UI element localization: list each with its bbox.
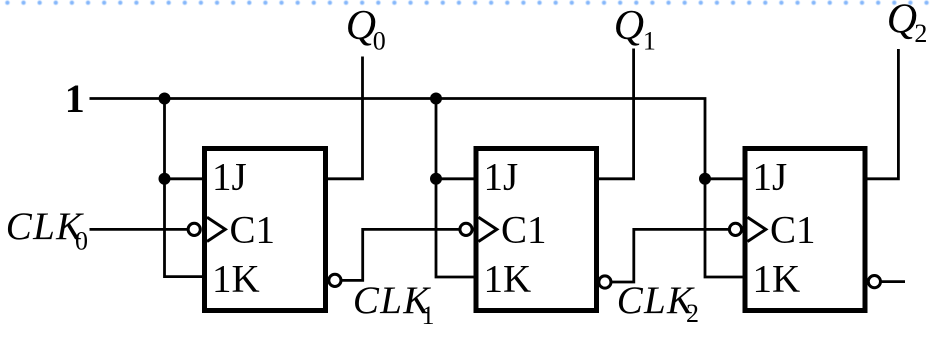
junction on bus at FF2 tap bbox=[430, 93, 442, 105]
wire: Q2 output from FF3 right edge, riser up to Q2 label bbox=[864, 49, 899, 179]
svg-text:1J: 1J bbox=[212, 155, 247, 198]
svg-text:CLK: CLK bbox=[353, 279, 431, 322]
svg-text:Q: Q bbox=[614, 3, 644, 49]
wire: Q0 output from FF1 right edge, riser up to Q0 label bbox=[324, 57, 363, 179]
svg-text:C1: C1 bbox=[230, 209, 276, 252]
U1 clock inversion bubble bbox=[188, 223, 200, 235]
U3 clock inversion bubble bbox=[729, 223, 741, 235]
svg-text:C1: C1 bbox=[501, 209, 547, 252]
svg-text:Q: Q bbox=[346, 3, 376, 49]
junction at FF3 J input bbox=[699, 173, 711, 185]
wire: logic-1 bus from "1" label across top, corner down at right into FF3 J/K tap bbox=[90, 99, 745, 278]
svg-text:2: 2 bbox=[686, 299, 699, 328]
svg-text:1: 1 bbox=[65, 76, 85, 121]
wire: FF2 J input bbox=[436, 177, 475, 180]
svg-text:1K: 1K bbox=[484, 257, 532, 300]
U2 clock edge triangle bbox=[479, 217, 497, 241]
U2 inverted-output bubble bbox=[599, 276, 611, 288]
svg-text:CLK: CLK bbox=[6, 205, 84, 248]
wire: FF2 inverted output to FF3 clock (CLK2 net) bbox=[612, 229, 729, 282]
flip-flop U3 box bbox=[745, 149, 865, 311]
flip-flop U1 box bbox=[205, 149, 326, 311]
svg-text:Q: Q bbox=[887, 0, 917, 43]
svg-text:0: 0 bbox=[373, 27, 386, 56]
wire: CLK0 input to FF1 clock bubble bbox=[90, 228, 188, 231]
svg-text:2: 2 bbox=[914, 19, 927, 48]
svg-text:1: 1 bbox=[643, 27, 656, 56]
junction at FF1 J input bbox=[159, 173, 171, 185]
svg-text:1J: 1J bbox=[484, 155, 519, 198]
svg-text:1J: 1J bbox=[753, 155, 788, 198]
wire: Q1 output from FF2 right edge, riser up to Q1 label bbox=[595, 49, 634, 179]
svg-text:0: 0 bbox=[75, 227, 88, 256]
svg-text:1K: 1K bbox=[212, 257, 260, 300]
U2 clock inversion bubble bbox=[460, 223, 472, 235]
wire: FF1 J input bbox=[165, 177, 205, 180]
U1 inverted-output bubble bbox=[329, 274, 341, 286]
wire: FF3 J input from bus tap bbox=[705, 177, 744, 180]
flip-flop U2 box bbox=[476, 149, 597, 311]
U3 inverted-output bubble bbox=[868, 276, 880, 288]
svg-text:CLK: CLK bbox=[617, 279, 695, 322]
svg-text:C1: C1 bbox=[770, 209, 816, 252]
wire: FF3 inverted output stub bbox=[882, 280, 906, 283]
svg-text:1: 1 bbox=[422, 301, 435, 330]
wire: FF1 J/K tap vertical from bus down, turn right into 1K bbox=[165, 99, 205, 277]
U3 clock edge triangle bbox=[748, 217, 766, 241]
junction on bus at FF1 tap bbox=[159, 93, 171, 105]
wire: FF1 inverted output to FF2 clock (CLK1 net) bbox=[342, 229, 459, 280]
decorative dotted border (not labelled further) bbox=[0, 0, 932, 6]
svg-text:1K: 1K bbox=[753, 257, 801, 300]
junction at FF2 J input bbox=[430, 173, 442, 185]
wire: FF2 J/K tap vertical from bus down, turn right into 1K bbox=[436, 99, 475, 278]
U1 clock edge triangle bbox=[207, 217, 225, 241]
